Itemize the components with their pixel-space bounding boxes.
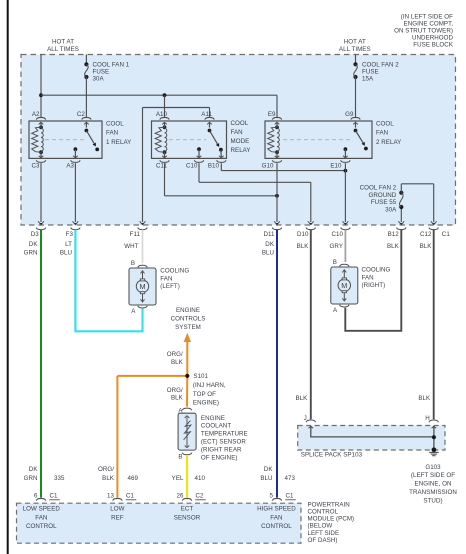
svg-text:C2: C2: [196, 493, 205, 500]
svg-text:COOL: COOL: [376, 120, 394, 127]
svg-text:TEMPERATURE: TEMPERATURE: [201, 431, 248, 438]
svg-text:A2: A2: [32, 111, 40, 118]
svg-text:ALL TIMES: ALL TIMES: [47, 46, 79, 53]
svg-text:ALL TIMES: ALL TIMES: [339, 46, 371, 53]
svg-text:SENSOR: SENSOR: [174, 514, 201, 521]
svg-text:FUSE: FUSE: [362, 68, 379, 75]
svg-text:GRN: GRN: [24, 249, 38, 256]
svg-text:C10: C10: [186, 163, 198, 170]
svg-text:BLK: BLK: [297, 243, 310, 250]
svg-text:ENGINE): ENGINE): [193, 400, 219, 407]
svg-text:J: J: [304, 415, 307, 422]
svg-text:CONTROL: CONTROL: [26, 523, 57, 530]
svg-text:(RIGHT REAR: (RIGHT REAR: [201, 446, 242, 453]
svg-text:BLK: BLK: [171, 359, 184, 366]
svg-text:D3: D3: [31, 231, 40, 238]
svg-text:ORG/: ORG/: [98, 466, 114, 473]
svg-text:FAN: FAN: [376, 130, 388, 137]
svg-text:ENGINE, ON: ENGINE, ON: [415, 481, 452, 488]
svg-text:SYSTEM: SYSTEM: [175, 324, 201, 331]
svg-text:CONTROL: CONTROL: [261, 523, 292, 530]
svg-text:FUSE BLOCK: FUSE BLOCK: [413, 42, 454, 49]
svg-text:LOW SPEED: LOW SPEED: [23, 506, 61, 513]
svg-text:COOLING: COOLING: [160, 268, 189, 275]
svg-text:BLU: BLU: [60, 249, 72, 256]
svg-text:BLK: BLK: [387, 243, 400, 250]
svg-text:FAN: FAN: [35, 514, 47, 521]
svg-text:ECT: ECT: [181, 506, 194, 513]
svg-text:C1: C1: [286, 493, 295, 500]
svg-text:A3: A3: [66, 163, 74, 170]
svg-text:HOT AT: HOT AT: [344, 38, 366, 45]
svg-text:26: 26: [177, 493, 184, 500]
svg-text:RELAY: RELAY: [231, 147, 251, 154]
svg-text:FAN: FAN: [270, 514, 282, 521]
svg-text:FAN: FAN: [106, 130, 118, 137]
svg-text:GROUND: GROUND: [368, 192, 396, 199]
svg-text:2 RELAY: 2 RELAY: [376, 139, 401, 146]
svg-text:POWERTRAIN: POWERTRAIN: [308, 501, 350, 508]
svg-text:COOL FAN 1: COOL FAN 1: [93, 61, 130, 68]
svg-text:6: 6: [34, 493, 38, 500]
svg-text:YEL: YEL: [172, 475, 184, 482]
svg-text:15A: 15A: [362, 75, 374, 82]
svg-text:13: 13: [107, 493, 114, 500]
svg-text:M: M: [341, 281, 347, 290]
svg-text:COOL FAN 2: COOL FAN 2: [360, 185, 397, 192]
svg-text:473: 473: [285, 475, 296, 482]
svg-text:C3: C3: [31, 163, 40, 170]
svg-text:ENGINE: ENGINE: [201, 415, 225, 422]
svg-text:C1: C1: [442, 231, 451, 238]
svg-text:ORG/: ORG/: [167, 387, 183, 394]
svg-text:D11: D11: [263, 231, 275, 238]
svg-text:(INJ HARN,: (INJ HARN,: [193, 382, 226, 389]
svg-text:ON STRUT TOWER): ON STRUT TOWER): [394, 28, 453, 35]
svg-text:A10: A10: [156, 111, 168, 118]
svg-text:(ECT) SENSOR: (ECT) SENSOR: [201, 439, 246, 446]
svg-text:BLU: BLU: [260, 475, 272, 482]
svg-text:BLK: BLK: [102, 475, 115, 482]
svg-text:DK: DK: [29, 241, 39, 248]
svg-text:CONTROL: CONTROL: [308, 509, 339, 516]
svg-text:M: M: [139, 282, 145, 291]
svg-text:REF: REF: [111, 514, 124, 521]
svg-text:335: 335: [54, 475, 65, 482]
svg-text:FUSE 55: FUSE 55: [371, 199, 397, 206]
svg-text:C10: C10: [331, 231, 343, 238]
svg-text:BLK: BLK: [418, 395, 431, 402]
svg-text:B: B: [178, 454, 182, 461]
svg-text:LT: LT: [65, 241, 72, 248]
svg-text:ORG/: ORG/: [167, 351, 183, 358]
svg-text:GRN: GRN: [24, 475, 38, 482]
svg-text:D10: D10: [297, 231, 309, 238]
svg-text:410: 410: [195, 475, 206, 482]
svg-text:5: 5: [270, 493, 274, 500]
svg-text:C1: C1: [126, 493, 135, 500]
svg-text:E10: E10: [330, 163, 342, 170]
svg-text:STUD): STUD): [423, 497, 442, 504]
svg-text:DK: DK: [265, 241, 275, 248]
svg-text:F3: F3: [66, 231, 74, 238]
svg-text:COOL: COOL: [106, 120, 124, 127]
svg-text:DK: DK: [264, 466, 274, 473]
svg-text:E9: E9: [268, 111, 276, 118]
svg-text:SPLICE PACK SP103: SPLICE PACK SP103: [301, 452, 363, 459]
svg-text:BLU: BLU: [262, 249, 274, 256]
svg-text:CONTROLS: CONTROLS: [171, 315, 206, 322]
svg-text:C11: C11: [156, 163, 168, 170]
svg-text:FAN: FAN: [231, 129, 243, 136]
svg-text:B10: B10: [208, 163, 220, 170]
svg-text:(LEFT): (LEFT): [160, 283, 180, 290]
svg-text:BLK: BLK: [420, 243, 433, 250]
svg-text:B: B: [131, 260, 135, 267]
svg-text:G103: G103: [425, 464, 441, 471]
svg-text:HIGH SPEED: HIGH SPEED: [257, 506, 296, 513]
svg-text:H: H: [425, 415, 430, 422]
svg-text:BLK: BLK: [295, 395, 308, 402]
svg-text:(LEFT SIDE OF: (LEFT SIDE OF: [411, 472, 455, 479]
svg-text:COOL FAN 2: COOL FAN 2: [362, 61, 399, 68]
svg-text:469: 469: [128, 475, 139, 482]
svg-text:G9: G9: [345, 111, 354, 118]
svg-text:LOW: LOW: [110, 506, 124, 513]
svg-text:C2: C2: [77, 111, 86, 118]
svg-text:30A: 30A: [385, 206, 397, 213]
svg-text:WHT: WHT: [124, 243, 138, 250]
svg-text:MODE: MODE: [231, 138, 250, 145]
svg-text:C1: C1: [50, 493, 59, 500]
svg-text:HOT AT: HOT AT: [52, 38, 74, 45]
svg-text:C12: C12: [420, 231, 432, 238]
svg-text:A11: A11: [201, 111, 212, 118]
svg-text:COOLANT: COOLANT: [201, 423, 231, 430]
svg-text:OF DASH): OF DASH): [308, 537, 338, 544]
svg-text:FAN: FAN: [160, 275, 172, 282]
svg-text:G10: G10: [262, 163, 274, 170]
svg-text:ENGINE COMPT,: ENGINE COMPT,: [404, 20, 454, 27]
svg-text:ENGINE: ENGINE: [176, 307, 200, 314]
svg-text:1 RELAY: 1 RELAY: [106, 139, 131, 146]
svg-text:F11: F11: [130, 231, 141, 238]
svg-text:GRY: GRY: [330, 243, 343, 250]
svg-text:MODULE (PCM): MODULE (PCM): [308, 516, 355, 523]
svg-text:(IN LEFT SIDE OF: (IN LEFT SIDE OF: [401, 13, 453, 20]
svg-text:S101: S101: [193, 373, 208, 380]
svg-text:DK: DK: [29, 466, 39, 473]
svg-text:30A: 30A: [93, 75, 105, 82]
svg-text:OF ENGINE): OF ENGINE): [201, 454, 238, 461]
svg-text:COOL: COOL: [231, 120, 249, 127]
svg-text:TRANSMISSION: TRANSMISSION: [409, 489, 457, 496]
svg-text:LEFT SIDE: LEFT SIDE: [308, 530, 340, 537]
svg-text:UNDERHOOD: UNDERHOOD: [412, 35, 453, 42]
svg-text:B12: B12: [388, 231, 400, 238]
svg-text:COOLING: COOLING: [362, 267, 391, 274]
svg-text:BLK: BLK: [171, 395, 184, 402]
svg-text:FAN: FAN: [362, 274, 374, 281]
svg-text:(BELOW: (BELOW: [308, 523, 333, 530]
svg-text:(RIGHT): (RIGHT): [362, 282, 386, 289]
svg-text:FUSE: FUSE: [93, 68, 110, 75]
svg-text:B: B: [333, 259, 337, 266]
svg-text:TOP OF: TOP OF: [193, 391, 216, 398]
